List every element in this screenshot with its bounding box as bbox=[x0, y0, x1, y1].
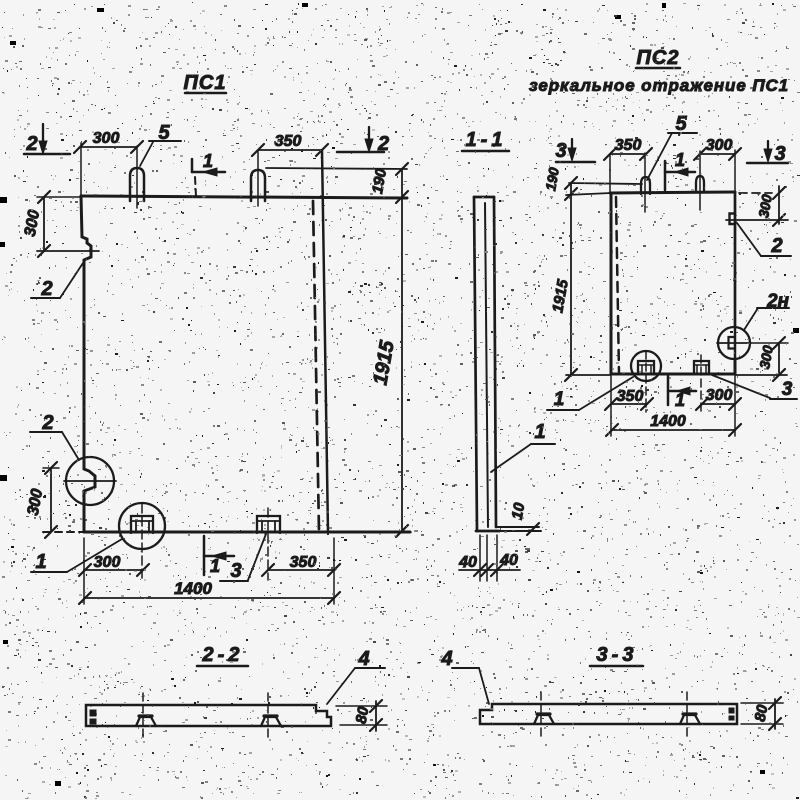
dimension 40 40 of 1-1 bbox=[479, 535, 481, 581]
section mark 1 bottom of PS1 bbox=[203, 536, 206, 575]
svg-text:1: 1 bbox=[534, 421, 545, 443]
dimension 190 right PS1 bbox=[266, 168, 407, 169]
dimension 350 top PS1 bbox=[258, 149, 322, 151]
section mark 1 top of PS1 bbox=[191, 159, 194, 172]
panel PS2 bottom edge bbox=[611, 373, 735, 376]
svg-text:4: 4 bbox=[440, 648, 452, 670]
svg-text:4: 4 bbox=[357, 648, 369, 670]
panel PS1 outline: top edge bbox=[81, 196, 407, 198]
svg-text:зеркальное отражение ПС1: зеркальное отражение ПС1 bbox=[529, 76, 789, 95]
dimension 80 of 3-3 bbox=[741, 702, 783, 704]
svg-text:2: 2 bbox=[25, 133, 37, 155]
svg-text:3: 3 bbox=[774, 143, 785, 165]
detail circle 2 lower left PS1 bbox=[66, 457, 114, 505]
svg-text:40: 40 bbox=[458, 554, 477, 571]
dimension 1400 bottom PS2 bbox=[611, 429, 735, 431]
panel PS2 hidden dashed edge bbox=[616, 197, 619, 374]
dimension 300 top left PS1 bbox=[80, 146, 137, 148]
svg-text:2: 2 bbox=[770, 235, 782, 257]
dimension 350 top PS2 bbox=[610, 153, 646, 155]
panel PS1 left edge with key notches bbox=[81, 196, 95, 532]
dimension 1400 bottom PS1 bbox=[84, 597, 334, 599]
dimension 300 upper right PS2 bbox=[739, 192, 772, 194]
section mark 1 top PS2 bbox=[664, 161, 667, 190]
svg-text:3-3: 3-3 bbox=[597, 644, 638, 666]
anchor detail circle bottom left PS2 bbox=[631, 351, 661, 381]
dimension 350 bottom PS2 bbox=[611, 403, 647, 405]
anchor 3 bottom PS1 bbox=[257, 516, 280, 533]
dimension 350 bottom PS1 bbox=[268, 569, 335, 571]
detail circle 2n right PS2 bbox=[718, 327, 750, 359]
anchor in 2-2 at right bbox=[261, 717, 281, 726]
left end key marks 2-2 bbox=[90, 710, 96, 716]
dimension 190 left PS2 bbox=[569, 183, 642, 184]
dimension 300 lower left edge PS1 bbox=[50, 468, 52, 532]
anchor in 2-2 at left bbox=[136, 717, 156, 726]
section 1-1 bar bbox=[474, 196, 494, 199]
svg-text:3: 3 bbox=[230, 560, 241, 582]
section 3-3 bar with corner notch left bbox=[480, 704, 737, 724]
lifting loop 5 right of PS1 bbox=[251, 170, 265, 201]
dimension 300 bottom PS2 bbox=[701, 403, 735, 405]
anchor 1 bracket PS2 bbox=[638, 361, 654, 374]
dimension 1915 right PS1 bbox=[401, 169, 403, 531]
dimension 300 bottom PS1 bbox=[84, 569, 143, 571]
right end key marks 3-3 bbox=[729, 708, 734, 713]
anchor 1 bracket bbox=[131, 516, 153, 533]
panel PS1 right edge (solid interior) bbox=[322, 150, 328, 532]
svg-text:2: 2 bbox=[40, 278, 52, 300]
anchor in 3-3 at left bbox=[534, 715, 554, 724]
svg-text:350: 350 bbox=[615, 137, 642, 154]
svg-text:1: 1 bbox=[675, 390, 685, 410]
lifting loop left PS2 bbox=[641, 177, 650, 194]
section mark 2 right bbox=[368, 127, 370, 146]
dimension 300 upper left edge PS1 bbox=[37, 196, 80, 198]
svg-text:1400: 1400 bbox=[650, 413, 686, 430]
dimension 1915 left PS2 bbox=[570, 183, 572, 375]
svg-text:1: 1 bbox=[35, 551, 46, 573]
svg-text:1-1: 1-1 bbox=[466, 129, 507, 151]
svg-text:1: 1 bbox=[675, 150, 685, 170]
section 2-2 bar with corner notch right bbox=[86, 705, 331, 726]
notch in circle 2n bbox=[734, 327, 737, 359]
dimension 300 top PS2 bbox=[700, 153, 735, 155]
svg-text:3: 3 bbox=[782, 379, 793, 400]
panel PS2 outline bbox=[566, 193, 611, 195]
svg-text:ПС1: ПС1 bbox=[184, 72, 227, 94]
svg-text:300: 300 bbox=[706, 387, 733, 404]
svg-text:300: 300 bbox=[94, 554, 121, 571]
svg-text:2: 2 bbox=[41, 412, 53, 434]
panel PS1 hidden edge (dashed) bbox=[313, 201, 319, 532]
svg-text:300: 300 bbox=[93, 130, 120, 147]
anchor 3 bracket PS2 bbox=[694, 361, 709, 374]
section mark 1 bottom PS2 bbox=[667, 376, 670, 405]
svg-text:300: 300 bbox=[706, 137, 733, 154]
bottom lip 10 of 1-1 bbox=[496, 526, 539, 528]
svg-text:1400: 1400 bbox=[174, 579, 212, 598]
lifting loop right PS2 bbox=[696, 176, 704, 192]
panel PS2 right edge with notches bbox=[734, 192, 737, 327]
anchor detail circle 1 bottom PS1 bbox=[119, 503, 165, 549]
dimension 80 of 2-2 bbox=[336, 705, 387, 707]
svg-text:1: 1 bbox=[210, 556, 220, 576]
label 1 leader of 1-1 bar bbox=[491, 444, 531, 472]
anchor in 3-3 at right bbox=[680, 715, 700, 724]
svg-text:3: 3 bbox=[555, 140, 566, 162]
dimension 300 lower right PS2 bbox=[751, 342, 788, 344]
svg-text:350: 350 bbox=[290, 554, 317, 571]
lifting loop 5 left of PS1 bbox=[130, 168, 144, 201]
panel PS1 bottom edge bbox=[84, 531, 410, 534]
section mark 3 right PS2 bbox=[767, 141, 769, 151]
